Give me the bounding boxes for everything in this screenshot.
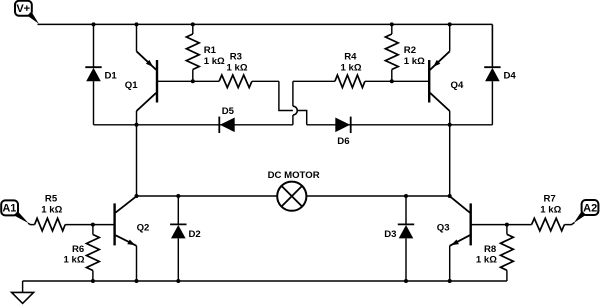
- resistor R4: [335, 75, 365, 88]
- wire Q1 base: [157, 80, 193, 82]
- junction R2 R4 base: [390, 79, 394, 83]
- diode D6: [335, 117, 350, 133]
- svg-text:Q2: Q2: [137, 223, 150, 234]
- wire ground stub: [22, 281, 24, 292]
- wire Q1 collector: [136, 111, 138, 196]
- wire Q4 base: [392, 80, 429, 82]
- wire top rail: [38, 23, 493, 25]
- svg-text:Q3: Q3: [437, 223, 450, 234]
- wire Q3 emitter: [449, 246, 451, 281]
- label R5 value: [41, 204, 62, 215]
- junction motor Q1/Q2: [135, 194, 139, 198]
- label R1 value: [204, 56, 225, 67]
- junction top Q1 emitter: [135, 22, 139, 26]
- resistor R8: [501, 234, 514, 270]
- junction Q2 base: [91, 223, 95, 227]
- junction Q3 base: [505, 223, 509, 227]
- svg-text:1 kΩ: 1 kΩ: [476, 255, 497, 266]
- label D1: [105, 71, 118, 82]
- wire Q4 emitter: [449, 24, 451, 51]
- svg-text:A2: A2: [583, 202, 597, 214]
- wire motor rail right: [306, 195, 449, 197]
- junction ground Q3 emitter: [448, 279, 452, 283]
- junction top R2: [390, 22, 394, 26]
- svg-text:R7: R7: [544, 193, 556, 204]
- wire R2 top lead: [391, 24, 393, 34]
- resistor R6: [87, 235, 100, 271]
- wire R3 left lead: [193, 80, 219, 82]
- label R5: [45, 193, 58, 204]
- label R3: [230, 52, 242, 63]
- svg-text:R8: R8: [484, 244, 497, 255]
- label R4: [344, 52, 357, 63]
- svg-text:1 kΩ: 1 kΩ: [341, 62, 362, 73]
- diode D1: [85, 67, 101, 81]
- diode D2: [170, 224, 186, 238]
- diode D3: [398, 224, 414, 238]
- wire D1 top: [93, 24, 95, 67]
- wire D1 bottom: [93, 81, 95, 125]
- svg-text:V+: V+: [16, 3, 30, 15]
- label R4 value: [341, 62, 362, 73]
- label R7: [544, 193, 556, 204]
- label Q2: [137, 223, 150, 234]
- wire R6 bottom lead: [92, 271, 94, 282]
- svg-text:R2: R2: [404, 45, 416, 56]
- wire D4 bottom: [491, 81, 493, 125]
- svg-text:Q4: Q4: [451, 80, 464, 91]
- label R2 value: [404, 56, 425, 67]
- net flag V+: [15, 1, 39, 24]
- wire R4 right lead: [365, 80, 392, 82]
- svg-text:D5: D5: [222, 106, 235, 117]
- junction cross Q4 collector: [448, 123, 452, 127]
- wire Q1 emitter: [136, 24, 138, 51]
- label R2: [404, 45, 416, 56]
- wire D3 bottom: [405, 238, 407, 281]
- svg-text:1 kΩ: 1 kΩ: [204, 56, 225, 67]
- wire R1 top lead: [192, 24, 194, 34]
- wire hop to D5 rail: [292, 115, 294, 125]
- svg-text:D2: D2: [189, 229, 201, 240]
- wire D3 top: [405, 196, 407, 224]
- wire R1 bottom lead: [192, 70, 194, 82]
- junction top Q4 emitter: [448, 22, 452, 26]
- wire R7 to A2: [564, 223, 574, 225]
- diode D4: [484, 67, 500, 81]
- svg-text:R4: R4: [344, 52, 357, 63]
- junction ground D3: [404, 279, 408, 283]
- net flag A1: [1, 200, 28, 223]
- label DC MOTOR: [268, 170, 320, 181]
- junction ground D2: [176, 279, 180, 283]
- wire D4 drop: [491, 24, 493, 67]
- label D6: [337, 136, 349, 147]
- wire D2 top: [177, 196, 179, 224]
- svg-text:D4: D4: [504, 71, 517, 82]
- svg-text:DC MOTOR: DC MOTOR: [268, 170, 320, 181]
- wire Q4 collector: [449, 111, 451, 196]
- resistor R5: [35, 218, 66, 231]
- wire Q2 emitter: [136, 246, 138, 281]
- label Q4: [451, 80, 464, 91]
- junction motor Q3/Q4: [448, 194, 452, 198]
- svg-text:1 kΩ: 1 kΩ: [404, 56, 425, 67]
- ground GND: [12, 292, 34, 303]
- svg-text:R6: R6: [72, 244, 84, 255]
- label R8: [484, 244, 497, 255]
- junction ground Q2 emitter: [135, 279, 139, 283]
- wire R2 bottom lead: [391, 70, 393, 82]
- junction ground R6: [91, 279, 95, 283]
- net flag A2: [574, 200, 598, 223]
- svg-text:D1: D1: [105, 71, 118, 82]
- wire A1 to R5: [28, 223, 35, 224]
- transistor Q1: [137, 51, 158, 111]
- label R7 value: [540, 204, 561, 215]
- wire R4 left lead: [293, 80, 335, 82]
- label R8 value: [476, 255, 497, 266]
- junction top D1: [92, 22, 96, 26]
- label D2: [189, 229, 201, 240]
- wire R8 top lead: [506, 225, 508, 235]
- wire cross rail left: [94, 124, 293, 126]
- junction R1 R3 base: [191, 79, 195, 83]
- label R6 value: [64, 255, 85, 266]
- label Q3: [437, 223, 450, 234]
- svg-text:D6: D6: [337, 136, 349, 147]
- svg-text:R5: R5: [45, 193, 58, 204]
- label Q1: [125, 80, 138, 91]
- label R1: [204, 45, 217, 56]
- resistor R2: [385, 34, 398, 70]
- wire R6 top lead: [92, 225, 94, 235]
- resistor R3: [219, 75, 252, 88]
- svg-text:R3: R3: [230, 52, 242, 63]
- label D3: [384, 229, 396, 240]
- svg-text:D3: D3: [384, 229, 396, 240]
- transistor Q3: [450, 196, 471, 246]
- wire R4 to hop: [292, 81, 294, 106]
- wire R3 right lead: [252, 80, 279, 82]
- transistor Q2: [115, 196, 137, 246]
- wire R7 left lead: [507, 224, 532, 226]
- label D5: [222, 106, 235, 117]
- svg-text:1 kΩ: 1 kΩ: [41, 204, 62, 215]
- wire R8 bottom lead: [506, 270, 508, 281]
- junction motor D2: [176, 194, 180, 198]
- junction top R1: [191, 22, 195, 26]
- svg-text:A1: A1: [2, 203, 16, 215]
- wire D2 bottom: [177, 238, 179, 281]
- wire R3 to D6 (under hop): [279, 81, 307, 125]
- label R6: [72, 244, 84, 255]
- motor M1 DC MOTOR: [277, 182, 306, 211]
- wire motor rail left: [137, 195, 278, 197]
- diode D5: [219, 117, 234, 133]
- label D4: [504, 71, 517, 82]
- wire Q3 base: [471, 224, 507, 226]
- svg-text:1 kΩ: 1 kΩ: [64, 255, 85, 266]
- resistor R7: [532, 218, 565, 231]
- svg-text:1 kΩ: 1 kΩ: [227, 62, 248, 73]
- resistor R1: [186, 34, 199, 70]
- svg-text:1 kΩ: 1 kΩ: [540, 204, 561, 215]
- wire cross rail right: [307, 124, 493, 126]
- wire R5 right lead: [65, 224, 93, 226]
- wire Q2 base: [93, 224, 115, 226]
- junction motor D3: [404, 194, 408, 198]
- junction cross Q1 collector: [135, 123, 139, 127]
- label R3 value: [227, 62, 248, 73]
- svg-text:Q1: Q1: [125, 80, 138, 91]
- wire hop over: [293, 106, 297, 115]
- wire ground rail: [23, 280, 507, 282]
- svg-text:R1: R1: [204, 45, 217, 56]
- transistor Q4: [429, 51, 450, 111]
